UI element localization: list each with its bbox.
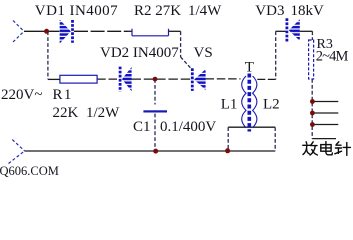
svg-text:R1: R1 — [53, 87, 73, 103]
svg-text:T: T — [245, 59, 254, 75]
svg-text:Q606.COM: Q606.COM — [0, 164, 59, 178]
svg-text:220V~: 220V~ — [1, 87, 42, 103]
svg-text:VD3: VD3 — [255, 3, 284, 19]
svg-text:1/2W: 1/2W — [86, 105, 120, 121]
svg-text:VD1 IN4007: VD1 IN4007 — [35, 3, 118, 19]
svg-text:2~4M: 2~4M — [316, 48, 349, 64]
svg-text:VD2 IN4007: VD2 IN4007 — [100, 45, 179, 61]
svg-text:C1: C1 — [133, 119, 151, 135]
svg-text:1/4W: 1/4W — [188, 3, 222, 19]
svg-text:L1: L1 — [221, 97, 238, 113]
svg-text:0.1/400V: 0.1/400V — [160, 119, 216, 135]
svg-text:L2: L2 — [263, 97, 280, 113]
svg-text:22K: 22K — [53, 105, 79, 121]
svg-text:R2 27K: R2 27K — [134, 3, 181, 19]
svg-text:18kV: 18kV — [291, 3, 325, 19]
svg-text:VS: VS — [194, 45, 213, 61]
